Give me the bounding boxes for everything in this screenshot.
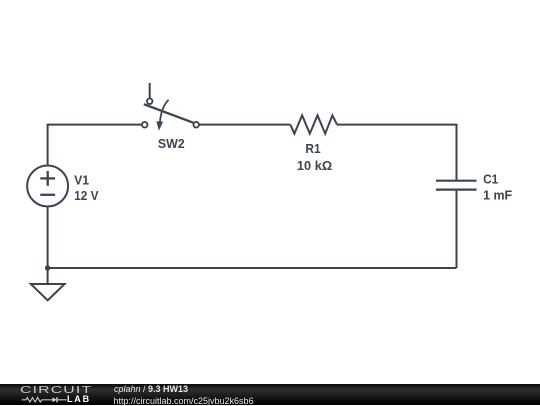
switch SW2 action arrow xyxy=(160,100,169,122)
switch SW2 left terminal circle xyxy=(142,122,148,128)
switch SW2 xyxy=(142,83,199,151)
voltage source V1 plus sign xyxy=(40,177,55,179)
svg-text:C1: C1 xyxy=(483,173,498,187)
wire bottom from capacitor to ground node xyxy=(48,267,457,269)
ground xyxy=(31,268,65,300)
svg-text:10 kΩ: 10 kΩ xyxy=(297,159,332,173)
wire from switch right terminal to resistor xyxy=(199,124,290,126)
junction node at ground xyxy=(45,265,50,270)
switch SW2 arm xyxy=(144,104,193,123)
svg-text:V1: V1 xyxy=(74,174,89,188)
svg-text:R1: R1 xyxy=(305,142,320,156)
wire from V1 bottom to ground node xyxy=(47,207,49,269)
voltage source V1 minus sign xyxy=(40,194,55,196)
footer bar xyxy=(0,384,540,405)
switch SW2 right terminal circle xyxy=(193,122,199,128)
switch SW2 top stub wire xyxy=(149,83,151,99)
svg-text:12 V: 12 V xyxy=(74,189,99,203)
capacitor C1 xyxy=(436,173,512,203)
footer logo LAB word xyxy=(67,394,91,404)
footer logo resistor-diode mark xyxy=(20,394,70,405)
svg-text:1 mF: 1 mF xyxy=(483,189,512,203)
wire from capacitor bottom to bottom-right corner xyxy=(456,191,458,268)
footer url line xyxy=(114,396,254,406)
footer credit line xyxy=(114,384,188,394)
switch SW2 top terminal circle xyxy=(147,98,153,104)
voltage source V1 xyxy=(27,166,99,207)
wire from resistor to top-right corner down to capacitor xyxy=(337,125,457,180)
footer logo CIRCUIT word xyxy=(20,384,92,396)
svg-text:SW2: SW2 xyxy=(158,137,185,151)
resistor R1 xyxy=(290,115,337,173)
wire top-left from V1 to switch xyxy=(48,125,142,166)
